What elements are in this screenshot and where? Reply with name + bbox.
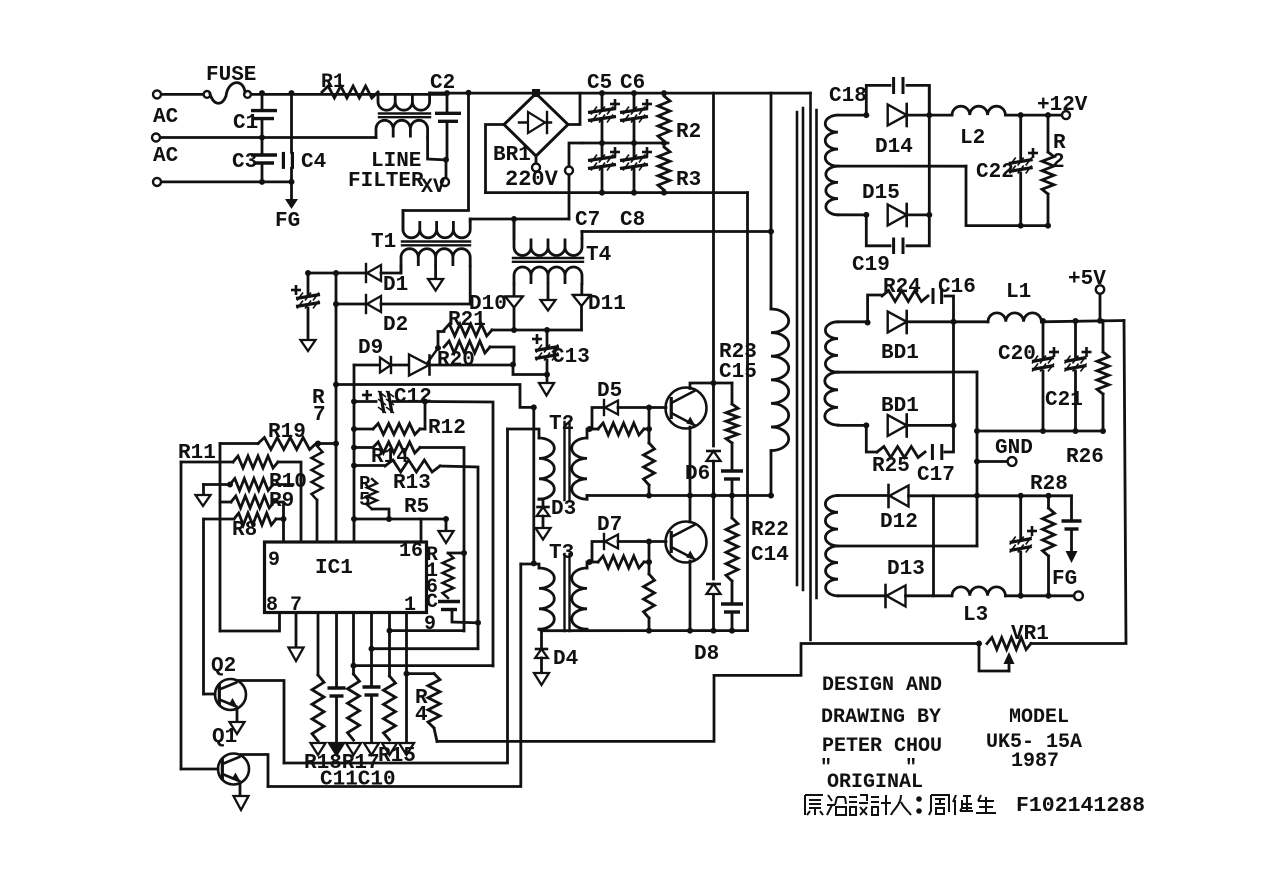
capacitor C9 (438, 600, 460, 603)
svg-text:C15: C15 (719, 361, 757, 384)
svg-text:R12: R12 (428, 417, 466, 440)
wire D2 row (336, 303, 366, 306)
node junction C2 bottom / filter out (443, 157, 449, 163)
ground arrow under T1 center tap (434, 266, 437, 279)
svg-text:R2: R2 (676, 121, 701, 144)
ground arrow under pin7 (295, 613, 298, 648)
wire T1 top out to C5 terminal (470, 218, 569, 221)
wire R21 left leg (437, 332, 440, 349)
wire T2 base row (587, 426, 593, 432)
svg-text:L1: L1 (1006, 281, 1031, 304)
capacitor C19 loop (866, 215, 890, 246)
resistor R7 vertical (312, 446, 323, 500)
terminal AC input 2 (152, 134, 160, 142)
capacitor C13 (546, 330, 549, 347)
wire +5V bottom rail (977, 430, 1103, 433)
capacitor C22 (1019, 115, 1022, 160)
svg-text:R19: R19 (268, 421, 306, 444)
wire AC line 3 (161, 180, 292, 183)
svg-text:T4: T4 (586, 244, 611, 267)
capacitor C1 (261, 93, 264, 111)
ground arrow under T4 center tap (547, 284, 550, 300)
wire T3 base row (587, 559, 593, 565)
core T3 core (563, 554, 565, 631)
wire y631 row (390, 629, 465, 632)
svg-text:R21: R21 (448, 309, 486, 332)
capacitor near FG (1070, 496, 1073, 521)
svg-text:D6: D6 (685, 463, 710, 486)
svg-text:8: 8 (266, 594, 278, 617)
wire totem output rail y495 (587, 494, 771, 497)
node junction fuse out (259, 90, 265, 96)
ground arrow FG right (1070, 529, 1073, 551)
capacitor C3 (261, 138, 264, 156)
resistor R14 (351, 445, 357, 451)
wire pin8 net (220, 613, 280, 631)
ground arrow near pin16 (445, 519, 448, 531)
node junction R20/C13 (510, 362, 516, 368)
resistor R18 (317, 613, 320, 675)
resistor R20 (444, 341, 490, 353)
svg-text:C18: C18 (829, 85, 867, 108)
svg-text:D5: D5 (597, 380, 622, 403)
svg-text:1987: 1987 (1011, 750, 1059, 773)
vertical bus x747 (746, 193, 749, 631)
diode D1 (367, 265, 381, 281)
diode D15 (863, 212, 869, 218)
inductor line-filter top winding (378, 93, 430, 110)
svg-text:D3: D3 (551, 498, 576, 521)
svg-text:XV: XV (421, 176, 445, 199)
svg-text:C2: C2 (430, 72, 455, 95)
resistor R25 / capacitor C17 loop (866, 425, 877, 452)
svg-text:D9: D9 (358, 337, 383, 360)
terminal AC input 3 (153, 178, 161, 186)
svg-text:R25: R25 (872, 455, 910, 478)
transformer T3 left winding (539, 568, 554, 629)
resistor R1 (322, 86, 378, 98)
wire Q2 collector (237, 681, 284, 764)
resistor R12 (351, 426, 357, 432)
fuse FUSE (204, 91, 211, 98)
svg-text:T2: T2 (549, 413, 574, 436)
transformer T1 secondary winding (401, 249, 470, 266)
wire center tap to GND bus (976, 372, 979, 546)
capacitor C2 (444, 90, 450, 96)
svg-text:R13: R13 (393, 472, 431, 495)
transformer T4 top winding (514, 239, 582, 256)
svg-text:D12: D12 (880, 511, 918, 534)
wire T2 left top feed (508, 429, 540, 438)
svg-text:R1: R1 (321, 71, 345, 94)
capacitor C14 (731, 581, 734, 604)
svg-text:C4: C4 (301, 151, 326, 174)
svg-text:AC: AC (153, 145, 179, 168)
capacitor C10 (370, 613, 373, 687)
svg-text:D11: D11 (588, 293, 626, 316)
wire R8 left leg to Q2 base (202, 519, 205, 694)
svg-text:C20: C20 (998, 343, 1036, 366)
svg-text:PETER CHOU: PETER CHOU (822, 735, 942, 758)
svg-text:C17: C17 (917, 464, 955, 487)
wire center tap return (966, 166, 1048, 225)
resistor R23 (731, 383, 734, 404)
resistor R24 / capacitor C16 loop (865, 320, 871, 326)
capacitor unlabeled electrolytic at T1 left (307, 273, 310, 295)
capacitor C11 (335, 613, 338, 688)
terminal AC input 1 (153, 90, 161, 98)
svg-text:FILTER: FILTER (348, 170, 424, 193)
svg-text:D7: D7 (597, 514, 622, 537)
resistor T2 base R (598, 423, 644, 435)
svg-text:BR1: BR1 (493, 144, 531, 167)
svg-text:C22: C22 (976, 161, 1014, 184)
resistor R28 (1047, 496, 1050, 508)
wire bottom rail 192 (486, 191, 748, 194)
svg-text:DESIGN AND: DESIGN AND (822, 674, 942, 697)
wire BD1 join vertical (952, 322, 955, 426)
diode D3 (539, 499, 543, 505)
resistor R10 (204, 483, 229, 486)
svg-text:4: 4 (415, 704, 428, 727)
node junction T4 feed (511, 216, 517, 222)
svg-text:R8: R8 (232, 519, 257, 542)
transistor upper power (649, 406, 666, 409)
svg-text:9: 9 (424, 613, 436, 636)
ground arrow under R10 wire (202, 485, 205, 496)
svg-text:Q1: Q1 (212, 726, 237, 749)
core main transformer core lines (796, 112, 799, 585)
transformer T2 right winding (572, 438, 587, 499)
wire BR1 right vertex up to C5 rail (568, 93, 580, 124)
resistor R8 (204, 518, 235, 521)
wire base node riser (648, 408, 651, 444)
svg-text:C14: C14 (751, 544, 789, 567)
wire long rail y384 (336, 385, 534, 408)
wire R18R17 row (284, 429, 508, 763)
svg-text:R26: R26 (1066, 446, 1104, 469)
capacitor C12 (351, 399, 357, 405)
svg-text:VR1: VR1 (1011, 623, 1049, 646)
capacitor C15 (731, 443, 734, 471)
resistor T2 BE resistor (644, 443, 655, 485)
wire AC line 2 (160, 136, 376, 139)
wire D2 vertical bus x336 (335, 273, 338, 542)
capacitor C21 (1074, 321, 1077, 358)
ground arrow Q2 emitter (236, 709, 239, 722)
diode D13 (884, 585, 887, 607)
svg-text:D15: D15 (862, 182, 900, 205)
terminal XV (445, 160, 448, 178)
wire D10-D11 bottom row (514, 329, 582, 332)
resistor R16 (448, 552, 464, 555)
wire mid rail (582, 142, 668, 145)
wire AC line 1 top rail (161, 93, 203, 96)
vertical bus x713 top-to-bottom (712, 93, 715, 446)
svg-text:+12V: +12V (1037, 94, 1088, 117)
bridge rectifier BR1 (504, 94, 568, 157)
wire column 6 (405, 613, 408, 741)
svg-text:D13: D13 (887, 558, 925, 581)
resistor R22 (731, 496, 734, 519)
svg-text:R3: R3 (676, 169, 701, 192)
svg-text:L3: L3 (963, 604, 988, 627)
svg-text:F102141288: F102141288 (1016, 794, 1145, 818)
svg-text:D14: D14 (875, 136, 913, 159)
svg-text:C16: C16 (938, 276, 976, 299)
svg-text:C19: C19 (852, 254, 890, 277)
svg-text:2: 2 (1052, 151, 1065, 174)
svg-text:+5V: +5V (1068, 268, 1106, 291)
resistor R9 (231, 496, 274, 508)
svg-text:L2: L2 (960, 127, 985, 150)
wire C11C10 row (268, 564, 521, 787)
svg-text:ORIGINAL: ORIGINAL (827, 771, 923, 794)
resistor R2 (599, 90, 605, 96)
diode D14 (888, 105, 907, 126)
svg-text:FUSE: FUSE (206, 64, 256, 87)
capacitor electrolytic minus12 (1019, 496, 1022, 539)
wire y666 row (354, 664, 494, 667)
potentiometer VR1 (987, 638, 1031, 650)
ground arrows under RC columns (311, 743, 326, 755)
wire R11 left leg to Q1 (180, 462, 183, 769)
transformer secondary winding 3 (838, 494, 888, 497)
capacitor C8 (633, 143, 636, 157)
svg-text:D2: D2 (383, 314, 408, 337)
svg-text:R24: R24 (883, 276, 921, 299)
svg-text:C3: C3 (232, 151, 257, 174)
svg-text:MODEL: MODEL (1009, 706, 1069, 729)
svg-text:C: C (426, 591, 438, 614)
core T1 core (402, 240, 470, 242)
svg-text:D8: D8 (694, 643, 719, 666)
inductor L2 (929, 114, 952, 117)
svg-text:R15: R15 (378, 745, 416, 768)
resistor R3 (658, 147, 670, 190)
resistor R26 (1102, 321, 1105, 353)
wire VR1 to left network (437, 644, 979, 742)
transformer secondary winding 1 (+12V) (838, 114, 866, 117)
svg-text:T3: T3 (549, 542, 574, 565)
wire right tall loop (1031, 321, 1126, 644)
terminal aux circle left of C5 group (569, 143, 582, 166)
svg-text:R9: R9 (269, 490, 294, 513)
resistor T3 BE resistor (644, 574, 655, 618)
wire D9 left leg down to C12 (353, 365, 356, 542)
IC IC1 body (265, 542, 427, 613)
wire T1 primary feed (403, 93, 469, 230)
diode D5 (590, 408, 605, 430)
terminal GND (977, 460, 1008, 463)
svg-text:Q2: Q2 (211, 655, 236, 678)
svg-text:BD1: BD1 (881, 395, 919, 418)
wire R19 left leg (219, 444, 222, 632)
svg-text:BD1: BD1 (881, 342, 919, 365)
wire bottom rail y630 (542, 629, 748, 632)
svg-text:R20: R20 (437, 349, 475, 372)
svg-text:GND: GND (995, 437, 1033, 460)
wire pin16 stub (420, 519, 423, 542)
diode D9 (354, 364, 380, 367)
wire D1 row (308, 272, 366, 275)
svg-text:C21: C21 (1045, 389, 1083, 412)
node junction C1 bottom (259, 135, 265, 141)
wire lower emitter (689, 561, 692, 631)
resistor R17 (352, 613, 355, 674)
capacitor C7 (601, 143, 604, 157)
inductor line-filter bottom winding (376, 120, 428, 137)
label CJK 原始設計人 (805, 795, 823, 815)
resistor R15 (388, 613, 391, 676)
diode D12 (887, 485, 890, 507)
core T2 core (563, 422, 565, 500)
wire T3 left top feed (521, 564, 539, 568)
svg-text:DRAWING BY: DRAWING BY (821, 706, 941, 729)
diode D8 symbol (707, 584, 721, 594)
ground arrow below electrolytic (301, 340, 316, 351)
svg-text:AC: AC (153, 106, 179, 129)
svg-text:C7: C7 (575, 209, 600, 232)
svg-text:C13: C13 (552, 346, 590, 369)
terminal FG right (1074, 591, 1083, 600)
wire upper emitter (689, 427, 692, 496)
transformer secondary winding 2 (+5V) (838, 320, 868, 323)
svg-text:R22: R22 (751, 519, 789, 542)
wire lower collector (689, 496, 692, 523)
diode D2 (367, 296, 381, 312)
transformer T1 top winding (403, 221, 470, 238)
diode D11 (580, 284, 583, 295)
diode D7 (590, 542, 605, 563)
svg-text:16: 16 (399, 540, 423, 563)
wire D12 out (934, 494, 978, 497)
diode BD1 lower (863, 422, 869, 428)
svg-text:R5: R5 (404, 496, 429, 519)
resistor R2 output (1047, 115, 1050, 152)
wire R28 rail (977, 494, 1072, 497)
svg-text:C11C10: C11C10 (320, 769, 396, 792)
resistor R21 (438, 330, 444, 333)
capacitor C20 (1042, 321, 1045, 358)
wire C12 row to right corner (425, 402, 493, 667)
diode BD1 upper (888, 312, 907, 333)
inductor L3 (952, 587, 1005, 596)
wire top rail to bridge (447, 92, 771, 95)
wire T4 top left riser (513, 219, 516, 236)
capacitor C4 (290, 93, 293, 152)
svg-text:D4: D4 (553, 648, 578, 671)
terminal +12V (1062, 111, 1070, 119)
ground arrow below C13 (546, 375, 549, 384)
transformer T4 bottom winding (514, 267, 582, 284)
svg-text:R28: R28 (1030, 473, 1068, 496)
svg-text:C8: C8 (620, 209, 645, 232)
wire y649 row (372, 647, 479, 650)
wire base node riser lower (648, 542, 651, 575)
thyristor Q5 pass element (409, 355, 429, 376)
core T4 core (513, 257, 583, 259)
transformer main primary (770, 93, 773, 309)
wiper VR1 arrow (979, 644, 1009, 672)
svg-text:220V: 220V (505, 167, 559, 192)
resistor T3 base R (598, 556, 644, 568)
ground FG arrow below C4 (290, 182, 293, 199)
terminal +5V (1096, 285, 1104, 293)
resistor R19 (220, 442, 258, 445)
resistor R13 (351, 463, 357, 469)
wire C8 line from T4 to transformer (582, 230, 771, 233)
resistor R4 (407, 672, 435, 675)
wire bus down to T3 top (532, 407, 535, 563)
svg-text:7: 7 (313, 404, 326, 427)
ground arrow Q1 emitter (239, 783, 242, 796)
transformer T3 right winding (572, 568, 587, 629)
svg-text:C1: C1 (233, 112, 258, 135)
wire BR1 left vertex to bottom rail (486, 125, 505, 193)
diode D6 symbol (707, 451, 721, 461)
svg-text:T1: T1 (371, 231, 396, 254)
wire upper collector (690, 383, 732, 389)
svg-text:D1: D1 (383, 274, 408, 297)
svg-text:IC1: IC1 (315, 557, 353, 580)
wire bottom row y519 (354, 518, 446, 521)
transistor lower power (649, 540, 666, 543)
svg-text:FG: FG (275, 210, 300, 233)
svg-text:9: 9 (268, 549, 280, 572)
wire Q1 collector (241, 755, 268, 787)
diode D10 (513, 284, 516, 296)
diode D4 (539, 629, 542, 647)
core line filter core (379, 112, 430, 114)
transformer T2 left winding (539, 438, 554, 499)
inductor L1 (954, 320, 989, 323)
terminal 220V tap (535, 156, 538, 164)
svg-text:FG: FG (1052, 568, 1077, 591)
